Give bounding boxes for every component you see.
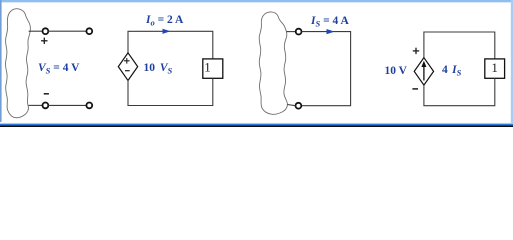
wire terminal b to terminal b' — [48, 104, 86, 106]
top frame border — [0, 0, 513, 2]
label + inside source — [124, 58, 130, 64]
left frame border — [0, 0, 2, 122]
label + (port top) — [41, 38, 47, 44]
terminal b' — [86, 103, 92, 109]
right frame border — [511, 0, 513, 123]
resistor R2 (1 ohm box, right circuit) — [485, 59, 505, 78]
wire cloud N1 to terminal b — [29, 104, 42, 106]
terminal a' — [86, 28, 92, 34]
current source arrow — [423, 65, 425, 81]
resistor R1 (1 ohm box, left circuit) — [203, 59, 223, 78]
wire bottom of left equivalent loop — [128, 78, 213, 105]
wire short-circuit loop — [301, 32, 350, 106]
label - (port bottom) — [44, 93, 49, 95]
svg-text:1: 1 — [491, 60, 498, 75]
wire top of left equivalent loop — [128, 31, 213, 59]
wire cloud N2 to terminal c — [287, 31, 296, 33]
bottom frame band — [0, 123, 513, 124]
wire cloud N2 to terminal d — [288, 105, 296, 106]
current arrow Io — [163, 29, 171, 34]
wire top of right equivalent loop — [424, 32, 495, 59]
network cloud N1 — [5, 9, 30, 118]
terminal a — [43, 28, 49, 34]
svg-text:VS = 4 V: VS = 4 V — [38, 62, 80, 76]
wire cloud N1 to terminal a — [29, 30, 42, 32]
svg-text:1: 1 — [204, 59, 211, 74]
network cloud N2 — [259, 12, 287, 114]
terminal c — [296, 29, 302, 35]
wire terminal a to terminal a' — [48, 30, 86, 32]
dependent voltage source 10VS (diamond) — [118, 53, 137, 81]
label - inside source — [125, 70, 130, 72]
terminal b — [43, 103, 49, 109]
dependent current source 4IS (diamond) — [414, 58, 433, 85]
label + (source polarity) — [413, 48, 419, 54]
svg-text:10 V: 10 V — [385, 65, 408, 77]
terminal d — [296, 103, 302, 109]
current arrow IS — [327, 29, 335, 34]
wire bottom of right equivalent loop — [424, 78, 495, 105]
label - (source polarity) — [412, 88, 418, 90]
